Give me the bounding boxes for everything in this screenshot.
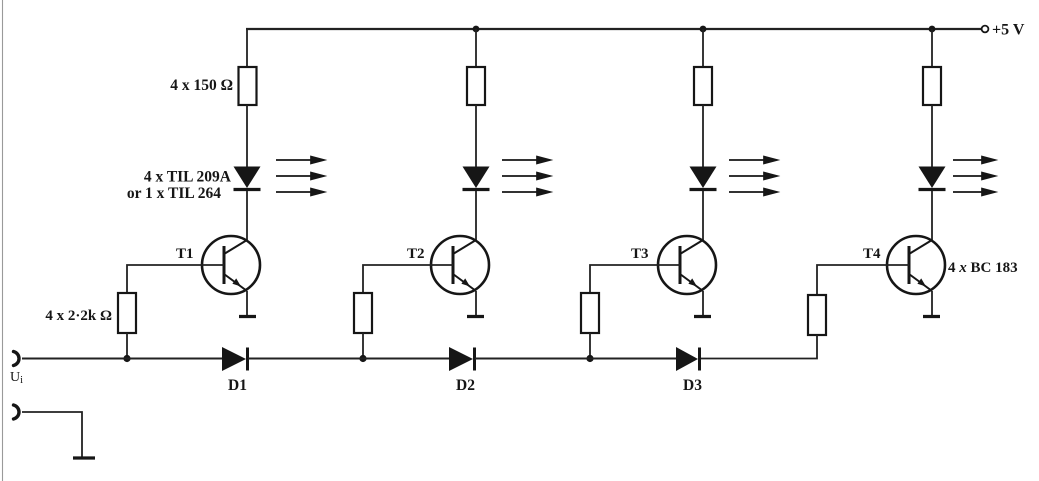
wire: 2k2 stage3 to input bus (589, 333, 591, 359)
transistor T4 (887, 236, 945, 294)
wire: R3 to LED3 (702, 105, 704, 168)
svg-text:Ui: Ui (10, 370, 23, 386)
base wire T3 to 2k2 resistor (590, 265, 680, 293)
wire: T1 emitter down (246, 291, 248, 316)
ground at T4 emitter (923, 315, 940, 318)
resistor 150R stage 1 (239, 67, 257, 105)
LED 1 (TIL209A) (234, 167, 261, 190)
svg-text:4 x 2·2k Ω: 4 x 2·2k Ω (45, 308, 112, 324)
base wire T4 to 2k2 resistor (817, 265, 909, 295)
wire: 2k2 stage2 to input bus (362, 333, 364, 359)
diode D3 (676, 347, 700, 371)
wire: second terminal to ground (22, 412, 82, 457)
junction on +5V rail at T2 column (473, 26, 480, 33)
resistor 150R stage 4 (923, 67, 941, 105)
light emission arrows LED2 (502, 157, 550, 196)
resistor 2k2 stage 3 (581, 293, 599, 333)
wire: LED3 to T3 collector (702, 191, 704, 241)
wire: input bus rise to 2k2 stage 4 (700, 335, 817, 359)
svg-text:T2: T2 (407, 246, 425, 262)
svg-text:D3: D3 (683, 377, 702, 394)
junction on input bus at stage 3 (586, 355, 593, 362)
LED 3 (690, 167, 717, 190)
svg-text:D1: D1 (228, 377, 247, 394)
wire: rail down to R2 top (stage 2) (475, 29, 477, 67)
wire: LED1 to T1 collector (246, 191, 248, 241)
+5V terminal (982, 26, 989, 33)
wire: R1 to LED1 (246, 105, 248, 168)
wire: input terminal to D1 (22, 358, 223, 360)
svg-text:D2: D2 (456, 377, 475, 394)
ground at T1 emitter (239, 315, 256, 318)
resistor 150R stage 2 (467, 67, 485, 105)
junction on input bus at stage 1 (123, 355, 130, 362)
ground at T3 emitter (694, 315, 711, 318)
svg-text:T1: T1 (176, 246, 194, 262)
light emission arrows LED4 (953, 157, 995, 196)
base wire T2 to 2k2 resistor (363, 265, 453, 293)
resistor 2k2 stage 2 (354, 293, 372, 333)
transistor T2 (431, 236, 489, 294)
LED 2 (463, 167, 490, 190)
wire: rail corner down to R1 top (stage 1) (246, 29, 248, 67)
svg-text:T4: T4 (863, 246, 881, 262)
input terminal Ui (14, 352, 20, 366)
wire: T4 emitter down (931, 291, 933, 316)
second input terminal (14, 405, 20, 419)
LED 4 (919, 167, 946, 190)
junction on +5V rail at T4 column (929, 26, 936, 33)
wire: T2 emitter down (475, 291, 477, 316)
wire: bus D1 to D2 (248, 358, 450, 360)
transistor T1 (202, 236, 260, 294)
resistor 2k2 stage 4 (808, 295, 826, 335)
transistor T3 (658, 236, 716, 294)
svg-text:4 x BC 183: 4 x BC 183 (948, 260, 1018, 276)
diode D2 (449, 347, 475, 371)
junction on +5V rail at T3 column (700, 26, 707, 33)
wire: bus D2 to D3 (475, 358, 677, 360)
wire: rail down to R3 top (stage 3) (702, 29, 704, 67)
base wire T1 to 2k2 resistor (127, 265, 224, 293)
junction on input bus at stage 2 (359, 355, 366, 362)
resistor 2k2 stage 1 (118, 293, 136, 333)
svg-text:4 x TIL 209A: 4 x TIL 209A (144, 169, 232, 186)
wire: T3 emitter down (702, 291, 704, 316)
wire: R2 to LED2 (475, 105, 477, 168)
ground at input return (73, 456, 95, 459)
light emission arrows LED3 (729, 157, 777, 196)
resistor 150R stage 3 (694, 67, 712, 105)
svg-text:4 x 150 Ω: 4 x 150 Ω (170, 77, 233, 94)
wire: LED2 to T2 collector (475, 191, 477, 241)
svg-text:+5 V: +5 V (992, 22, 1025, 39)
wire: 2k2 stage1 to input bus (126, 333, 128, 359)
svg-text:T3: T3 (631, 246, 649, 262)
svg-text:or 1 x TIL 264: or 1 x TIL 264 (127, 185, 221, 202)
light emission arrows LED1 (276, 157, 324, 196)
wire: LED4 to T4 collector (931, 191, 933, 241)
wire: rail down to R4 top (stage 4) (931, 29, 933, 67)
diode D1 (222, 347, 248, 371)
ground at T2 emitter (467, 315, 484, 318)
+5V supply rail wire (246, 28, 981, 30)
wire: R4 to LED4 (931, 105, 933, 168)
